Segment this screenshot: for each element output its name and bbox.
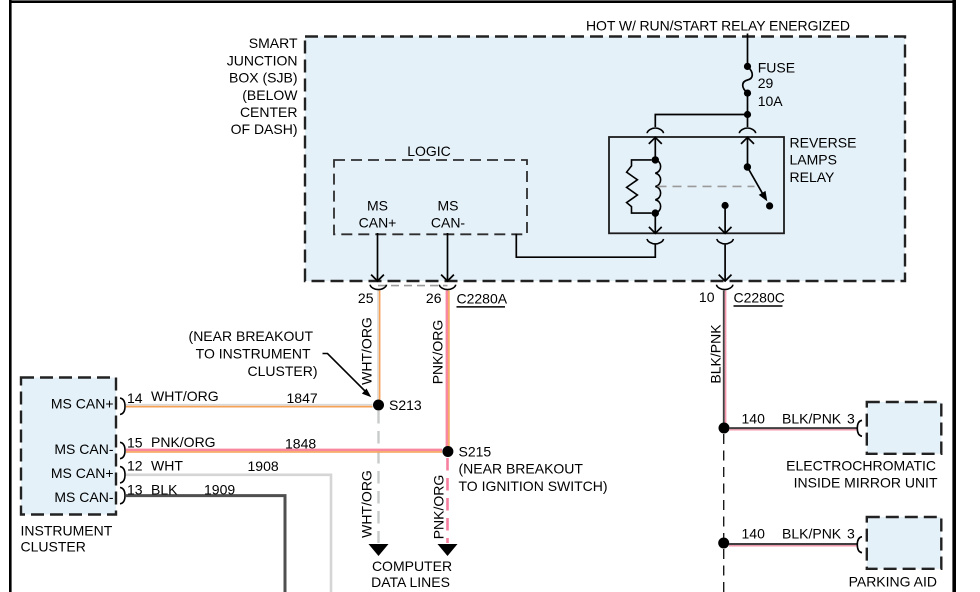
svg-text:CAN+: CAN+ xyxy=(359,215,397,231)
svg-text:BOX (SJB): BOX (SJB) xyxy=(229,70,297,86)
connector cup pin 25 xyxy=(370,285,386,290)
splice on BLK/PNK (parking branch) xyxy=(718,538,729,549)
svg-text:WHT/ORG: WHT/ORG xyxy=(359,317,375,385)
dashed PNK/ORG below S215 xyxy=(446,458,449,543)
svg-text:13: 13 xyxy=(127,482,143,498)
svg-text:PNK/ORG: PNK/ORG xyxy=(151,434,216,450)
svg-text:12: 12 xyxy=(127,458,143,474)
wire 140 BLK/PNK to mirror xyxy=(729,427,857,429)
svg-text:1847: 1847 xyxy=(287,390,318,406)
svg-text:HOT W/ RUN/START RELAY ENERGIZ: HOT W/ RUN/START RELAY ENERGIZED xyxy=(586,18,850,34)
wire coil bottom to logic box xyxy=(516,234,655,257)
svg-text:BLK: BLK xyxy=(151,482,178,498)
svg-text:S215: S215 xyxy=(459,444,492,460)
svg-text:PNK/ORG: PNK/ORG xyxy=(430,320,446,385)
arrow up into relay right xyxy=(741,137,754,144)
svg-text:RELAY: RELAY xyxy=(790,169,836,185)
C2280A grey link xyxy=(378,285,448,287)
svg-text:10: 10 xyxy=(699,289,715,305)
electrochromatic mirror box xyxy=(867,402,942,454)
svg-text:MS CAN+: MS CAN+ xyxy=(51,396,114,412)
svg-text:(NEAR BREAKOUT: (NEAR BREAKOUT xyxy=(459,461,584,477)
relay coil node bottom xyxy=(652,209,659,216)
SJB smart junction box (dashed, light blue) xyxy=(305,37,905,282)
wire from header into box xyxy=(747,34,749,65)
svg-text:3: 3 xyxy=(847,526,855,542)
svg-text:(NEAR BREAKOUT: (NEAR BREAKOUT xyxy=(189,328,314,344)
splice on BLK/PNK (mirror branch) xyxy=(719,423,730,434)
svg-text:INSIDE MIRROR UNIT: INSIDE MIRROR UNIT xyxy=(794,475,938,491)
parking aid box xyxy=(867,517,942,569)
connector cup pin 10 xyxy=(717,285,733,290)
logic output wires with arrows to pins 25/26 xyxy=(377,233,379,281)
svg-text:FUSE: FUSE xyxy=(758,59,795,75)
parking connector cup xyxy=(857,537,862,553)
switch pivot node xyxy=(744,163,751,170)
svg-text:TO INSTRUMENT: TO INSTRUMENT xyxy=(196,346,311,362)
wire junction to relay branches xyxy=(655,115,747,128)
wire relay common to pin 10 xyxy=(724,245,726,281)
svg-text:COMPUTER: COMPUTER xyxy=(372,558,452,574)
wire fuse to junction xyxy=(747,93,749,114)
svg-text:MS CAN+: MS CAN+ xyxy=(51,465,114,481)
svg-text:3: 3 xyxy=(847,411,855,427)
svg-text:CENTER: CENTER xyxy=(240,104,298,120)
svg-text:MS CAN-: MS CAN- xyxy=(54,489,113,505)
svg-text:BLK/PNK: BLK/PNK xyxy=(708,324,724,384)
svg-text:WHT: WHT xyxy=(151,458,183,474)
svg-text:INSTRUMENT: INSTRUMENT xyxy=(21,523,113,539)
svg-text:CLUSTER: CLUSTER xyxy=(21,539,86,555)
coil bottom wire with down arrow xyxy=(654,213,656,233)
splice S215 xyxy=(442,446,453,457)
svg-text:10A: 10A xyxy=(758,93,784,109)
svg-text:PARKING AID: PARKING AID xyxy=(849,574,937,590)
frame right border xyxy=(952,0,956,592)
svg-text:PNK/ORG: PNK/ORG xyxy=(431,475,447,540)
fuse 29 10A xyxy=(744,63,751,70)
connector cup above relay right xyxy=(739,128,755,133)
connector cup below relay left xyxy=(647,239,663,244)
svg-text:CLUSTER): CLUSTER) xyxy=(247,363,317,379)
wire 14 WHT/ORG horizontal to S213 xyxy=(126,404,373,406)
wire PNK/ORG vertical (pin 26 to S215) xyxy=(446,291,448,452)
svg-text:CAN-: CAN- xyxy=(431,215,466,231)
connector cup pin 26 xyxy=(439,285,455,290)
instrument cluster pin cups xyxy=(120,398,125,414)
svg-text:15: 15 xyxy=(127,434,143,450)
wire 13 BLK (to bottom) xyxy=(126,496,285,592)
wire 15 PNK/ORG horizontal to S215 xyxy=(126,449,442,451)
svg-text:WHT/ORG: WHT/ORG xyxy=(151,388,219,404)
svg-text:MS CAN-: MS CAN- xyxy=(54,441,113,457)
svg-text:C2280C: C2280C xyxy=(734,290,785,306)
wire 140 BLK/PNK to parking aid xyxy=(729,543,857,545)
svg-text:MS: MS xyxy=(367,198,388,214)
connector cup above relay left xyxy=(647,128,663,133)
svg-text:BLK/PNK: BLK/PNK xyxy=(782,526,842,542)
relay K: reverse lamps relay box xyxy=(609,137,784,233)
svg-text:WHT/ORG: WHT/ORG xyxy=(359,470,375,538)
svg-text:LAMPS: LAMPS xyxy=(790,152,837,168)
svg-text:14: 14 xyxy=(127,390,143,406)
LOGIC box xyxy=(334,160,527,234)
svg-text:REVERSE: REVERSE xyxy=(790,135,857,151)
svg-text:140: 140 xyxy=(742,526,766,542)
instrument cluster box xyxy=(21,378,116,515)
svg-text:(BELOW: (BELOW xyxy=(242,87,298,103)
relay coil xyxy=(655,160,660,213)
pointer arrow to S213 xyxy=(323,354,367,393)
dashed WHT/ORG below S213 xyxy=(377,411,379,543)
svg-text:140: 140 xyxy=(742,411,766,427)
switch arm with arrow xyxy=(747,167,763,195)
junction node xyxy=(744,111,751,118)
svg-text:25: 25 xyxy=(358,290,374,306)
svg-text:DATA LINES: DATA LINES xyxy=(371,574,450,590)
frame top border xyxy=(9,0,956,3)
dashed BLK/PNK continuation xyxy=(723,434,725,538)
svg-text:LOGIC: LOGIC xyxy=(407,143,451,159)
svg-text:SMART: SMART xyxy=(249,35,298,51)
switch common node xyxy=(722,202,729,209)
svg-text:29: 29 xyxy=(758,75,774,91)
arrow down out of relay (common) xyxy=(719,227,732,233)
svg-text:1908: 1908 xyxy=(248,458,279,474)
connector cup below relay right xyxy=(717,239,733,244)
svg-text:BLK/PNK: BLK/PNK xyxy=(782,411,842,427)
relay actuation dashed link xyxy=(658,185,755,187)
svg-text:1848: 1848 xyxy=(285,436,316,452)
wire BLK/PNK vertical (pin 10 to splice) xyxy=(723,291,725,425)
svg-text:1909: 1909 xyxy=(204,482,235,498)
svg-text:OF DASH): OF DASH) xyxy=(231,121,298,137)
off-page arrow WHT/ORG xyxy=(369,544,389,556)
svg-text:TO IGNITION SWITCH): TO IGNITION SWITCH) xyxy=(459,478,608,494)
svg-text:C2280A: C2280A xyxy=(457,291,508,307)
mirror connector cup xyxy=(857,420,862,436)
svg-text:26: 26 xyxy=(426,290,442,306)
svg-text:JUNCTION: JUNCTION xyxy=(227,52,298,68)
off-page arrow PNK/ORG xyxy=(438,544,458,556)
arrow up into relay left xyxy=(649,137,662,144)
svg-text:MS: MS xyxy=(438,198,459,214)
svg-text:ELECTROCHROMATIC: ELECTROCHROMATIC xyxy=(786,458,936,474)
frame left border xyxy=(9,0,12,592)
splice S213 xyxy=(373,400,384,411)
switch contact node xyxy=(766,202,773,209)
wire 12 WHT (to bottom) xyxy=(126,475,331,592)
svg-text:S213: S213 xyxy=(389,397,422,413)
relay coil node top xyxy=(652,156,659,163)
resistor (parallel with coil) xyxy=(627,160,652,213)
wire WHT/ORG vertical (pin 25 to S213) xyxy=(377,291,379,406)
